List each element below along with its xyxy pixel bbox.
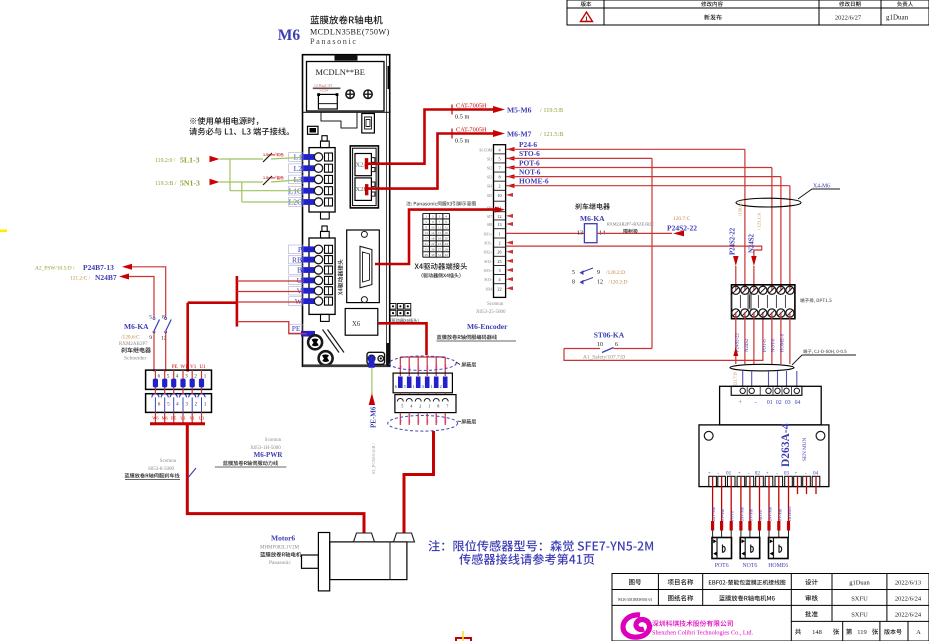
svg-text:MCDLN35BE(750W): MCDLN35BE(750W) [310,28,390,37]
svg-text:/120.6:C: /120.6:C [738,200,743,216]
svg-text:M6: M6 [162,416,169,421]
svg-text:SXFU: SXFU [851,596,868,603]
svg-text:7: 7 [498,166,500,171]
svg-text:PS-: PS- [426,365,430,369]
svg-text:17: 17 [424,237,428,241]
svg-text:12-BagCAT: 12-BagCAT [314,84,333,88]
svg-text:7: 7 [446,404,448,409]
svg-text:D263A-4: D263A-4 [780,423,792,467]
svg-text:M6: M6 [278,27,301,44]
svg-text:A1_Safety/107.7:D: A1_Safety/107.7:D [583,354,625,361]
svg-text:M6-KA: M6-KA [124,322,149,331]
svg-text:N24S2: N24S2 [745,338,750,352]
svg-text:24V-M6: 24V-M6 [768,507,773,521]
svg-text:Scomun: Scomun [265,438,282,443]
svg-text:0V-M6: 0V-M6 [777,509,782,521]
svg-text:/ 121.5:B: / 121.5:B [540,131,563,138]
svg-text:119: 119 [857,629,867,636]
svg-text:M6-KA: M6-KA [580,214,605,223]
svg-text:SO2+: SO2+ [484,251,492,255]
svg-text:3: 3 [498,268,500,273]
svg-text:MCDLN**BE: MCDLN**BE [316,68,365,77]
svg-text:/ 121.1:A: / 121.1:A [757,212,762,230]
svg-text:25: 25 [497,259,501,264]
svg-text:SI2: SI2 [487,167,492,171]
svg-text:119.3:B /: 119.3:B / [155,181,177,187]
svg-text:26: 26 [497,250,501,255]
svg-text:02: 02 [755,471,761,477]
svg-text:9: 9 [425,226,427,230]
svg-text:8: 8 [437,404,439,409]
svg-text:SO4: SO4 [486,287,493,291]
svg-text:N24S2: N24S2 [749,234,756,253]
svg-text:15: 15 [438,231,442,235]
svg-text:NOT6: NOT6 [758,510,763,521]
svg-text:HOME6: HOME6 [768,563,788,569]
svg-text:SI8: SI8 [487,223,492,227]
svg-text:NOT-6: NOT-6 [519,167,541,176]
svg-text:0V-M6: 0V-M6 [748,509,753,521]
svg-text:2: 2 [498,241,500,246]
svg-text:U1: U1 [199,365,206,370]
svg-text:+: + [738,471,741,477]
svg-text:SI7: SI7 [487,215,492,219]
svg-text:5: 5 [401,404,403,409]
svg-text:E0V: E0V [444,363,448,369]
svg-text:-: - [755,400,757,406]
svg-text:03: 03 [784,471,790,477]
svg-text:SI1: SI1 [487,157,492,161]
svg-text:9: 9 [597,270,600,276]
svg-text:22: 22 [431,242,435,246]
svg-text:PS+: PS+ [417,364,421,369]
svg-text:X4-M6: X4-M6 [813,184,830,190]
svg-text:-: - [805,471,807,477]
svg-text:SI4: SI4 [487,185,492,189]
svg-text:Shenzhen Colibri Technologies: Shenzhen Colibri Technologies Co., Ltd. [652,630,753,637]
svg-text:6: 6 [395,384,397,389]
svg-text:L2: L2 [294,164,303,173]
svg-text:27: 27 [438,247,442,251]
svg-text:13: 13 [497,222,501,227]
svg-text:V1: V1 [190,365,197,370]
svg-text:2: 2 [419,404,421,409]
svg-text:X6: X6 [352,321,361,328]
svg-text:+: + [795,471,798,477]
svg-text:04: 04 [813,471,819,477]
svg-text:E5V: E5V [435,363,439,369]
svg-text:g1Duan: g1Duan [849,580,870,587]
svg-text:RXM2AB2P7+RXZE1R2C: RXM2AB2P7+RXZE1R2C [607,222,654,227]
svg-text:1: 1 [413,384,415,389]
svg-text:SEN MUN: SEN MUN [802,438,808,461]
svg-text:04: 04 [795,400,801,406]
svg-text:3: 3 [422,384,424,389]
svg-text:13: 13 [424,231,428,235]
svg-text:-: - [748,471,750,477]
svg-text:N24B7: N24B7 [95,273,117,282]
svg-text:W6: W6 [152,416,159,421]
svg-text:121.2:C /: 121.2:C / [70,276,91,282]
svg-text:SI3: SI3 [487,176,492,180]
svg-text:21: 21 [424,242,428,246]
svg-text:PE: PE [292,324,301,333]
svg-text:13: 13 [577,230,583,237]
svg-text:/120.2:D: /120.2:D [606,270,625,276]
svg-text:6: 6 [432,220,434,224]
svg-text:1: 1 [428,404,430,409]
svg-text:28: 28 [444,247,448,251]
svg-text:NOT6: NOT6 [742,563,757,569]
svg-text:CAT-7005H: CAT-7005H [456,103,487,110]
svg-text:HOME6: HOME6 [787,507,792,521]
svg-text:24V-M6: 24V-M6 [739,507,744,521]
svg-text:SO2-: SO2- [484,260,492,264]
svg-text:PE-M6: PE-M6 [370,406,378,428]
svg-text:1: 1 [585,17,588,23]
svg-text:S053-8-5000: S053-8-5000 [148,467,175,472]
svg-text:12: 12 [444,226,448,230]
svg-text:20: 20 [444,237,448,241]
svg-text:SO3-: SO3- [484,278,492,282]
svg-text:0V-M6: 0V-M6 [720,509,725,521]
svg-text:23: 23 [438,242,442,246]
svg-text:03: 03 [785,400,791,406]
svg-text:STO-6: STO-6 [519,149,540,158]
svg-text:0.5 m: 0.5 m [455,138,469,145]
svg-text:3: 3 [439,215,441,219]
svg-text:119.2:0 /: 119.2:0 / [155,158,176,164]
svg-text:P: P [298,245,302,254]
svg-text:11: 11 [438,226,442,230]
svg-text:RXM2AB2P7: RXM2AB2P7 [119,342,148,347]
svg-text:8: 8 [445,220,447,224]
svg-text:NOT-6: NOT-6 [772,338,777,352]
svg-text:Motor6: Motor6 [271,534,295,543]
svg-text:PE: PE [171,416,176,421]
svg-text:7: 7 [439,220,441,224]
svg-text:g1Duan: g1Duan [886,14,909,22]
svg-text:12: 12 [497,214,501,219]
svg-text:X053-25-5000: X053-25-5000 [476,310,506,315]
svg-text:SXFU: SXFU [851,612,868,619]
svg-text:4: 4 [445,215,447,219]
svg-text:SI-COM: SI-COM [479,148,492,152]
svg-text:5: 5 [404,384,406,389]
svg-text:V1: V1 [190,416,195,421]
svg-text:2022/6/24: 2022/6/24 [895,596,922,603]
svg-text:RB: RB [292,255,302,264]
svg-text:Scomun: Scomun [487,302,504,307]
svg-text:5: 5 [572,270,575,276]
svg-text:12: 12 [597,280,603,286]
svg-text:M6-M7: M6-M7 [507,130,532,139]
svg-text:8: 8 [572,280,575,286]
svg-text:Scomun: Scomun [160,459,177,464]
svg-text:P24B7-13: P24B7-13 [83,263,114,272]
svg-text:10: 10 [497,193,501,198]
svg-text:14: 14 [431,231,435,235]
svg-text:W1: W1 [180,365,188,370]
svg-text:/120.2:D: /120.2:D [609,280,628,286]
svg-text:1: 1 [425,215,427,219]
svg-text:18: 18 [431,237,435,241]
svg-text:A2294: A2294 [319,89,328,93]
svg-text:6: 6 [615,342,618,348]
svg-text:120.7:C: 120.7:C [673,216,691,222]
svg-text:2: 2 [440,384,442,389]
svg-text:9: 9 [149,335,152,341]
svg-text:2022/6/27: 2022/6/27 [835,15,862,22]
svg-text:26: 26 [431,247,435,251]
svg-text:PS+: PS+ [417,418,421,423]
svg-text:29: 29 [424,253,428,257]
svg-text:SO1-: SO1- [484,242,492,246]
svg-text:121.7:D: 121.7:D [733,372,738,386]
svg-text:HOME-6: HOME-6 [519,177,549,186]
svg-text:/120.6:C: /120.6:C [121,335,140,341]
svg-text:P24S2-22: P24S2-22 [667,224,697,233]
svg-text:32: 32 [444,253,448,257]
svg-text:8: 8 [162,315,165,321]
svg-text:148: 148 [812,629,822,636]
svg-text:ST06-KA: ST06-KA [594,331,625,340]
svg-text:16: 16 [444,231,448,235]
svg-text:POT6: POT6 [730,511,735,521]
svg-text:W: W [295,297,303,306]
svg-text:22: 22 [497,286,501,291]
svg-text:P24S2-22: P24S2-22 [730,227,737,255]
svg-text:Panasonic: Panasonic [269,560,291,566]
svg-text:M5-M6: M5-M6 [507,106,532,115]
svg-text:2: 2 [498,184,500,189]
svg-text:POT-6: POT-6 [519,158,540,167]
svg-text:U1: U1 [180,416,185,421]
svg-text:M6-PWR: M6-PWR [254,451,284,459]
svg-text:-: - [776,471,778,477]
svg-text:HOME-6: HOME-6 [781,333,786,352]
svg-text:E5V: E5V [435,417,439,423]
svg-text:P24-6: P24-6 [519,140,537,149]
svg-text:/ 119.5:B: / 119.5:B [540,107,563,114]
svg-text:24V-M6: 24V-M6 [711,507,716,521]
svg-text:2022/6/24: 2022/6/24 [895,612,922,619]
svg-text:B: B [297,266,302,275]
svg-text:WLB-3031BEW001-01: WLB-3031BEW001-01 [618,598,653,602]
svg-text:+: + [739,400,742,406]
svg-text:PS-: PS- [426,419,430,423]
svg-text:19: 19 [438,237,442,241]
svg-text:SO3+: SO3+ [484,269,492,273]
svg-text:POT6: POT6 [715,563,729,569]
svg-text:5L1-3: 5L1-3 [180,156,200,165]
svg-text:A: A [916,629,921,636]
svg-text:1: 1 [498,231,500,236]
svg-text:31: 31 [438,253,442,257]
svg-text:5: 5 [149,315,152,321]
svg-text:2022/6/13: 2022/6/13 [895,580,921,587]
svg-text:1: 1 [431,384,433,389]
svg-text:Panasonic: Panasonic [310,37,358,46]
svg-text:+: + [708,471,711,477]
svg-text:-: - [717,471,719,477]
svg-text:CAT-7005H: CAT-7005H [456,127,487,134]
svg-text:2: 2 [432,215,434,219]
svg-text:+: + [766,471,769,477]
svg-text:24: 24 [444,242,448,246]
svg-text:M6-Encoder: M6-Encoder [467,322,508,331]
svg-text:U1: U1 [199,416,204,421]
svg-text:25: 25 [424,247,428,251]
svg-text:Schneider: Schneider [124,356,147,362]
svg-text:10: 10 [431,226,435,230]
svg-text:SI5: SI5 [487,194,492,198]
svg-text:5: 5 [425,220,427,224]
svg-text:30: 30 [431,253,435,257]
svg-text:5N1-3: 5N1-3 [180,179,200,188]
svg-text:5: 5 [498,156,500,161]
svg-text:01: 01 [726,471,732,477]
svg-text:POT-6: POT-6 [763,339,768,352]
svg-text:10: 10 [597,342,603,348]
svg-text:SO1+: SO1+ [484,232,492,236]
svg-text:62_PGW/6.6:B /: 62_PGW/6.6:B / [371,442,376,474]
svg-text:0.5 m: 0.5 m [455,114,469,121]
svg-text:8: 8 [498,175,500,180]
svg-text:A2_PSW/10.5:D /: A2_PSW/10.5:D / [35,266,75,272]
svg-text:MHMF082L1V2M: MHMF082L1V2M [260,546,299,551]
svg-text:01: 01 [767,400,773,406]
svg-text:02: 02 [776,400,782,406]
svg-text:PE: PE [172,365,178,370]
